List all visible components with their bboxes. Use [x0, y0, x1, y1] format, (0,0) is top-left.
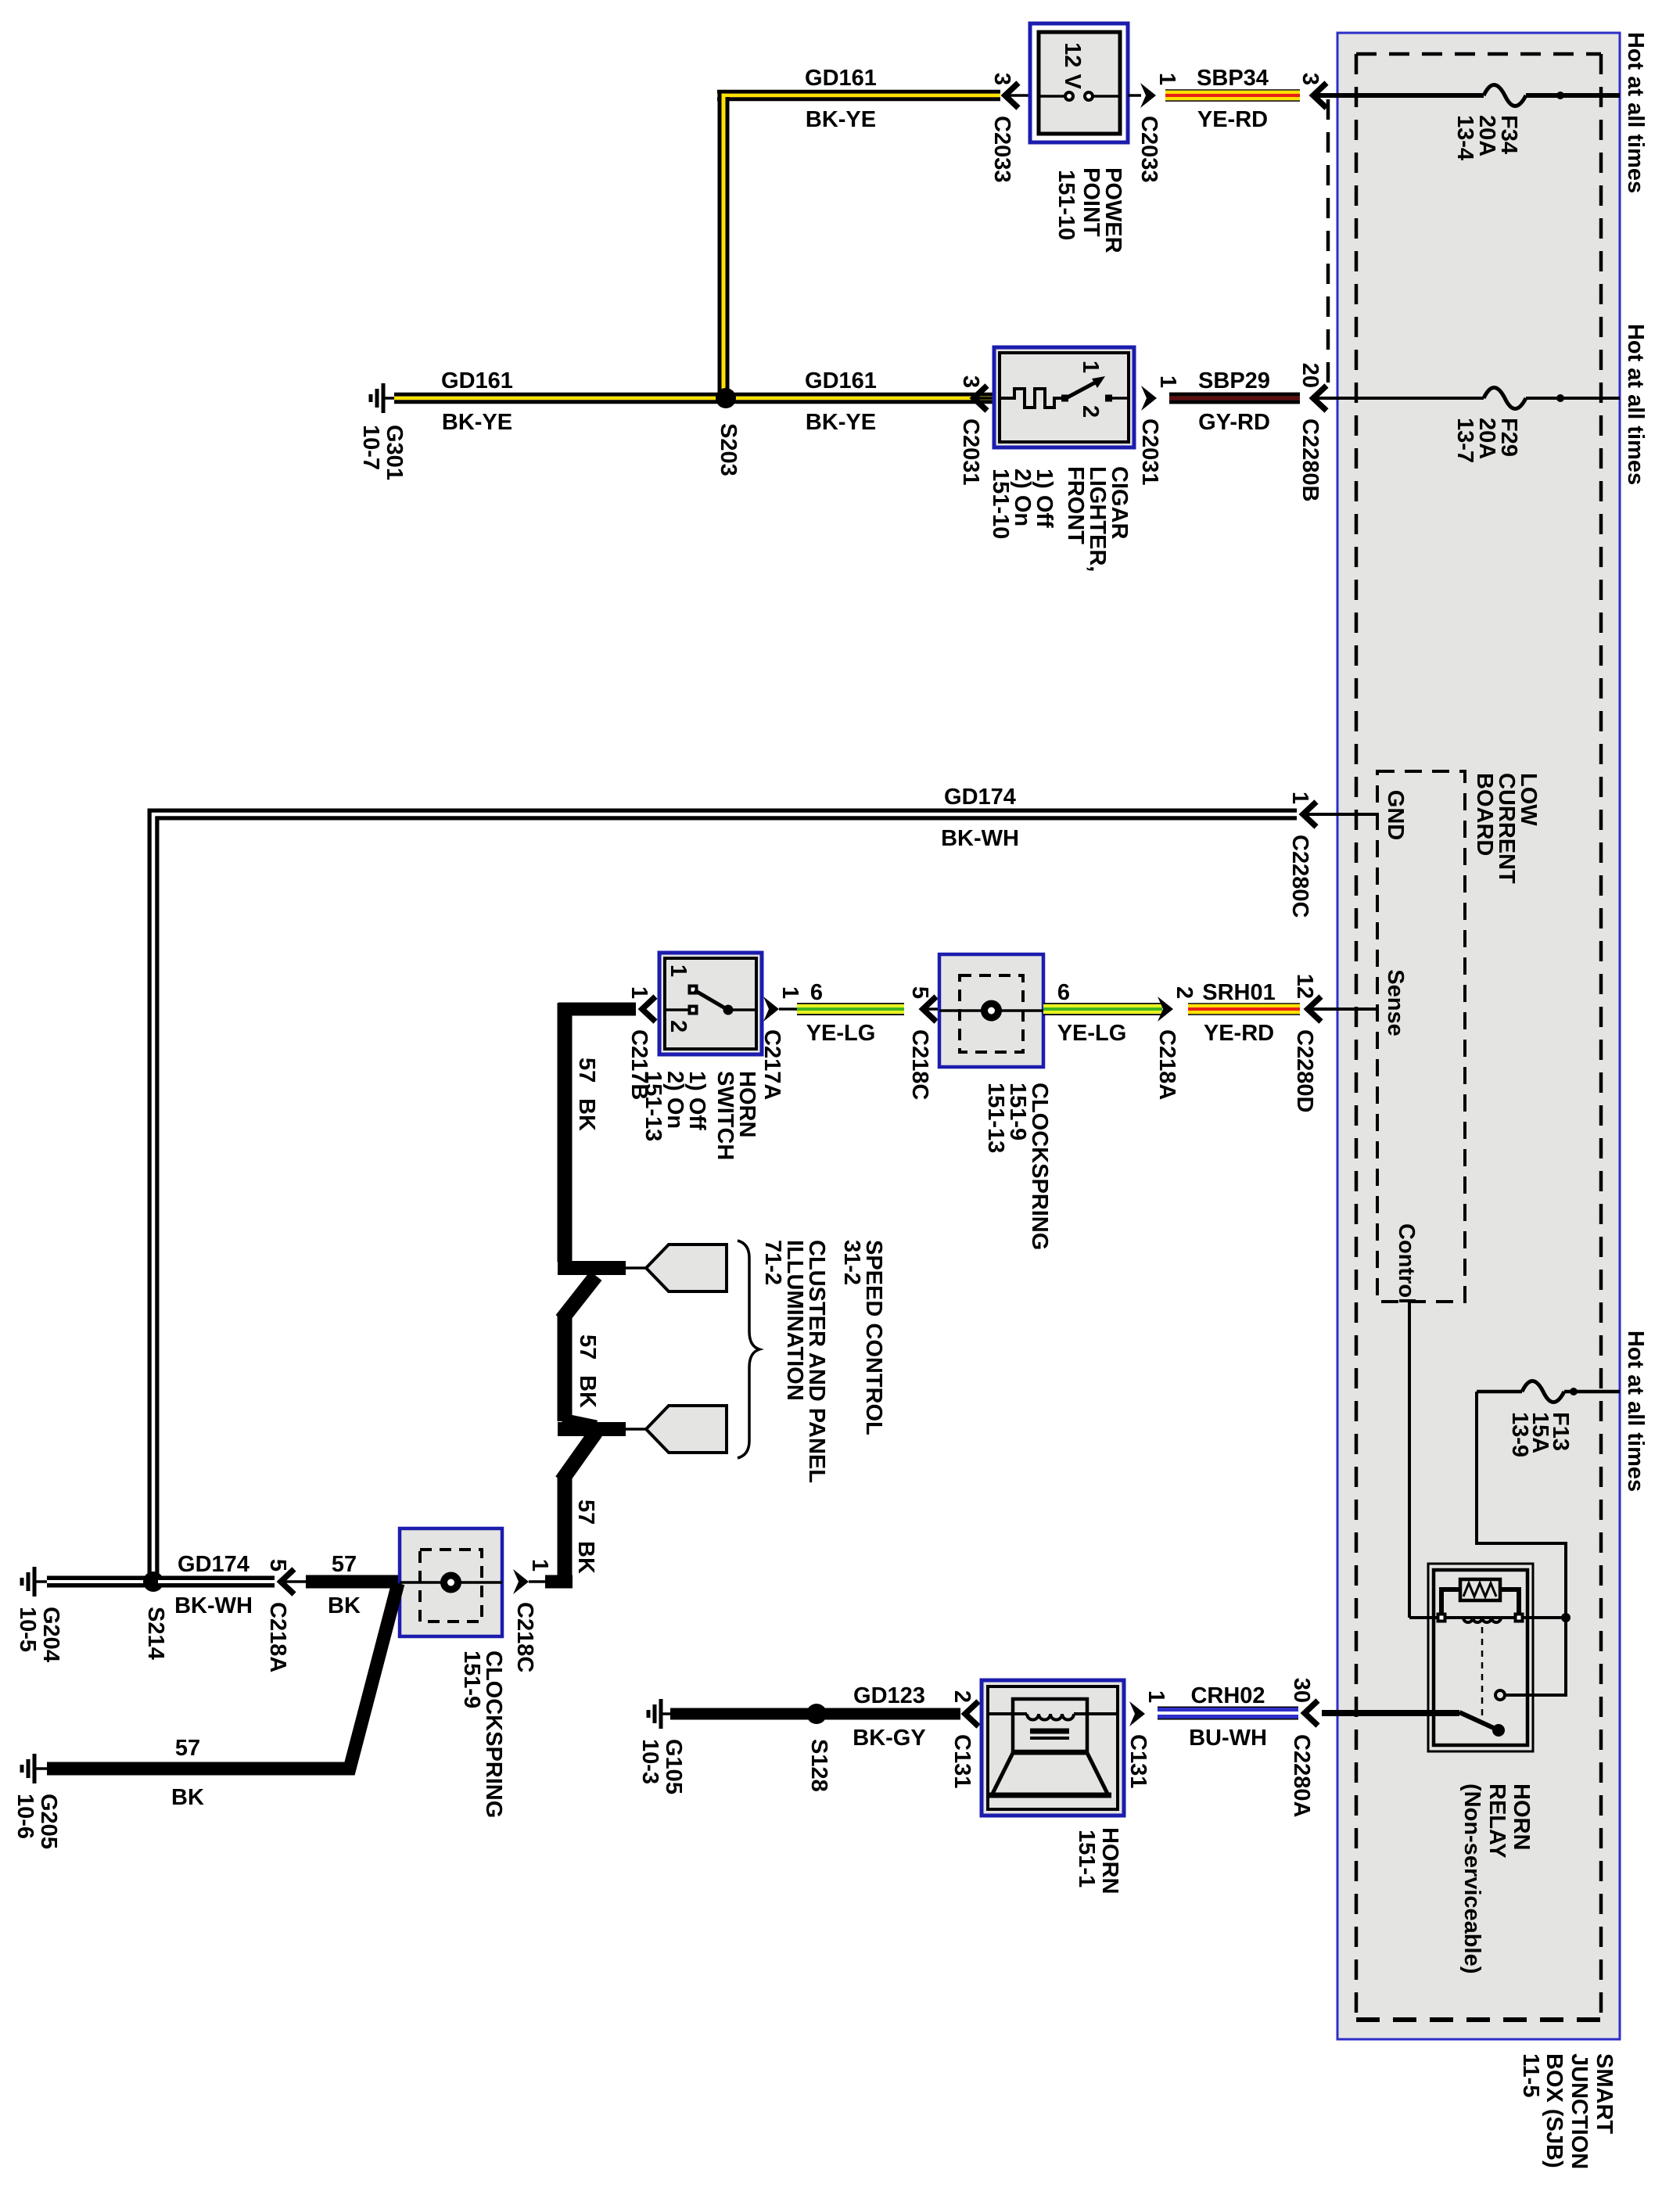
svg-text:S214: S214: [143, 1607, 168, 1660]
svg-text:20: 20: [1298, 363, 1323, 388]
svg-text:S203: S203: [716, 423, 741, 476]
svg-text:1: 1: [626, 986, 652, 999]
svg-text:G301: G301: [382, 425, 407, 480]
svg-text:YE-LG: YE-LG: [1057, 1021, 1127, 1046]
svg-text:BK: BK: [328, 1593, 361, 1618]
svg-text:1: 1: [777, 986, 802, 999]
svg-text:C218C: C218C: [907, 1029, 932, 1100]
svg-text:C2033: C2033: [989, 116, 1014, 182]
svg-text:YE-RD: YE-RD: [1197, 107, 1268, 132]
svg-text:RELAY: RELAY: [1484, 1783, 1509, 1859]
svg-text:1: 1: [527, 1559, 552, 1571]
svg-text:12: 12: [1292, 974, 1317, 999]
svg-text:Hot at all times: Hot at all times: [1623, 324, 1648, 485]
svg-text:151-13: 151-13: [641, 1071, 666, 1141]
svg-text:1: 1: [1154, 73, 1179, 85]
svg-text:BOARD: BOARD: [1472, 773, 1497, 856]
svg-text:YE-LG: YE-LG: [806, 1021, 876, 1046]
svg-text:151-10: 151-10: [1054, 170, 1079, 240]
svg-text:BK-YE: BK-YE: [806, 107, 876, 132]
svg-text:5: 5: [265, 1559, 290, 1571]
svg-text:Hot at all times: Hot at all times: [1623, 1331, 1648, 1492]
svg-text:G105: G105: [661, 1739, 686, 1794]
svg-text:SBP29: SBP29: [1198, 368, 1270, 393]
svg-text:2: 2: [949, 1690, 975, 1703]
svg-text:FRONT: FRONT: [1063, 466, 1088, 544]
svg-text:BK-GY: BK-GY: [853, 1726, 925, 1751]
svg-text:G205: G205: [36, 1794, 61, 1849]
svg-text:13-7: 13-7: [1452, 418, 1477, 463]
svg-text:6: 6: [810, 980, 823, 1005]
svg-text:1: 1: [666, 964, 691, 977]
svg-text:151-1: 151-1: [1074, 1830, 1099, 1888]
svg-text:GD161: GD161: [805, 66, 877, 91]
svg-text:12 V: 12 V: [1060, 42, 1085, 89]
svg-text:BK-YE: BK-YE: [806, 410, 876, 435]
svg-text:3: 3: [958, 375, 983, 388]
svg-text:C218A: C218A: [265, 1602, 290, 1672]
svg-text:Sense: Sense: [1383, 969, 1408, 1036]
svg-text:C2031: C2031: [958, 418, 983, 485]
svg-text:POINT: POINT: [1079, 167, 1104, 237]
svg-text:10-6: 10-6: [13, 1794, 38, 1839]
svg-text:5: 5: [907, 986, 932, 999]
svg-text:10-3: 10-3: [637, 1739, 662, 1784]
svg-text:BK-WH: BK-WH: [941, 826, 1019, 851]
svg-text:GD174: GD174: [944, 785, 1016, 810]
svg-text:13-9: 13-9: [1507, 1412, 1532, 1457]
svg-text:BK: BK: [171, 1785, 204, 1810]
svg-text:BK: BK: [575, 1375, 600, 1408]
svg-text:C2033: C2033: [1136, 116, 1161, 182]
svg-text:11-5: 11-5: [1518, 2053, 1543, 2097]
svg-text:GD161: GD161: [805, 368, 877, 393]
svg-text:S128: S128: [806, 1739, 831, 1792]
svg-text:C131: C131: [949, 1734, 975, 1788]
svg-text:13-4: 13-4: [1452, 115, 1477, 160]
svg-text:BK-YE: BK-YE: [442, 410, 512, 435]
svg-text:G204: G204: [38, 1607, 63, 1662]
svg-text:C218A: C218A: [1154, 1029, 1179, 1100]
svg-text:BK-WH: BK-WH: [174, 1593, 253, 1618]
svg-text:57: 57: [332, 1552, 357, 1577]
svg-text:C2031: C2031: [1137, 418, 1162, 485]
svg-text:1: 1: [1287, 792, 1312, 804]
svg-text:151-10: 151-10: [988, 469, 1013, 539]
svg-text:10-5: 10-5: [15, 1607, 40, 1652]
svg-text:10-7: 10-7: [358, 425, 383, 470]
svg-text:57: 57: [575, 1334, 600, 1360]
svg-text:C2280A: C2280A: [1289, 1734, 1314, 1817]
svg-text:C217A: C217A: [759, 1029, 784, 1100]
svg-text:CRH02: CRH02: [1190, 1683, 1265, 1708]
svg-text:BK: BK: [573, 1541, 598, 1574]
svg-text:GY-RD: GY-RD: [1198, 410, 1270, 435]
svg-text:SRH01: SRH01: [1202, 980, 1276, 1005]
svg-text:2: 2: [666, 1020, 691, 1033]
svg-text:57: 57: [573, 1500, 598, 1525]
svg-text:C2280B: C2280B: [1298, 418, 1323, 501]
svg-text:71-2: 71-2: [760, 1240, 785, 1285]
svg-text:SBP34: SBP34: [1197, 66, 1269, 91]
svg-text:2: 2: [1078, 405, 1103, 418]
svg-text:BK: BK: [574, 1098, 599, 1131]
svg-text:2: 2: [1172, 986, 1197, 999]
svg-text:C218C: C218C: [512, 1602, 537, 1672]
svg-text:GND: GND: [1383, 790, 1408, 840]
svg-text:SMART: SMART: [1592, 2053, 1617, 2134]
svg-text:YE-RD: YE-RD: [1204, 1021, 1274, 1046]
svg-text:1: 1: [1155, 375, 1180, 388]
svg-text:GD161: GD161: [441, 368, 513, 393]
svg-text:BOX (SJB): BOX (SJB): [1542, 2053, 1567, 2168]
svg-text:1: 1: [1143, 1690, 1168, 1703]
svg-text:151-9: 151-9: [459, 1650, 484, 1708]
svg-text:C131: C131: [1125, 1734, 1151, 1788]
svg-text:6: 6: [1057, 980, 1070, 1005]
svg-text:SWITCH: SWITCH: [713, 1071, 738, 1160]
svg-text:57: 57: [175, 1736, 200, 1761]
svg-text:GD123: GD123: [853, 1683, 925, 1708]
svg-text:151-13: 151-13: [983, 1083, 1008, 1153]
svg-text:HORN: HORN: [1509, 1783, 1534, 1850]
svg-text:3: 3: [1298, 73, 1323, 85]
svg-text:C2280D: C2280D: [1292, 1029, 1317, 1112]
svg-text:3: 3: [989, 73, 1014, 85]
svg-text:31-2: 31-2: [839, 1240, 864, 1285]
svg-text:JUNCTION: JUNCTION: [1567, 2053, 1592, 2169]
svg-text:57: 57: [574, 1058, 599, 1083]
svg-text:C2280C: C2280C: [1287, 835, 1312, 918]
svg-text:Control: Control: [1394, 1223, 1419, 1304]
svg-text:30: 30: [1289, 1678, 1314, 1703]
svg-text:Hot at all times: Hot at all times: [1623, 32, 1648, 193]
svg-text:BU-WH: BU-WH: [1189, 1726, 1267, 1751]
svg-text:(Non-serviceable): (Non-serviceable): [1459, 1783, 1484, 1974]
svg-text:HORN: HORN: [1097, 1827, 1122, 1894]
svg-text:1: 1: [1078, 361, 1103, 373]
svg-text:GD174: GD174: [178, 1552, 249, 1577]
